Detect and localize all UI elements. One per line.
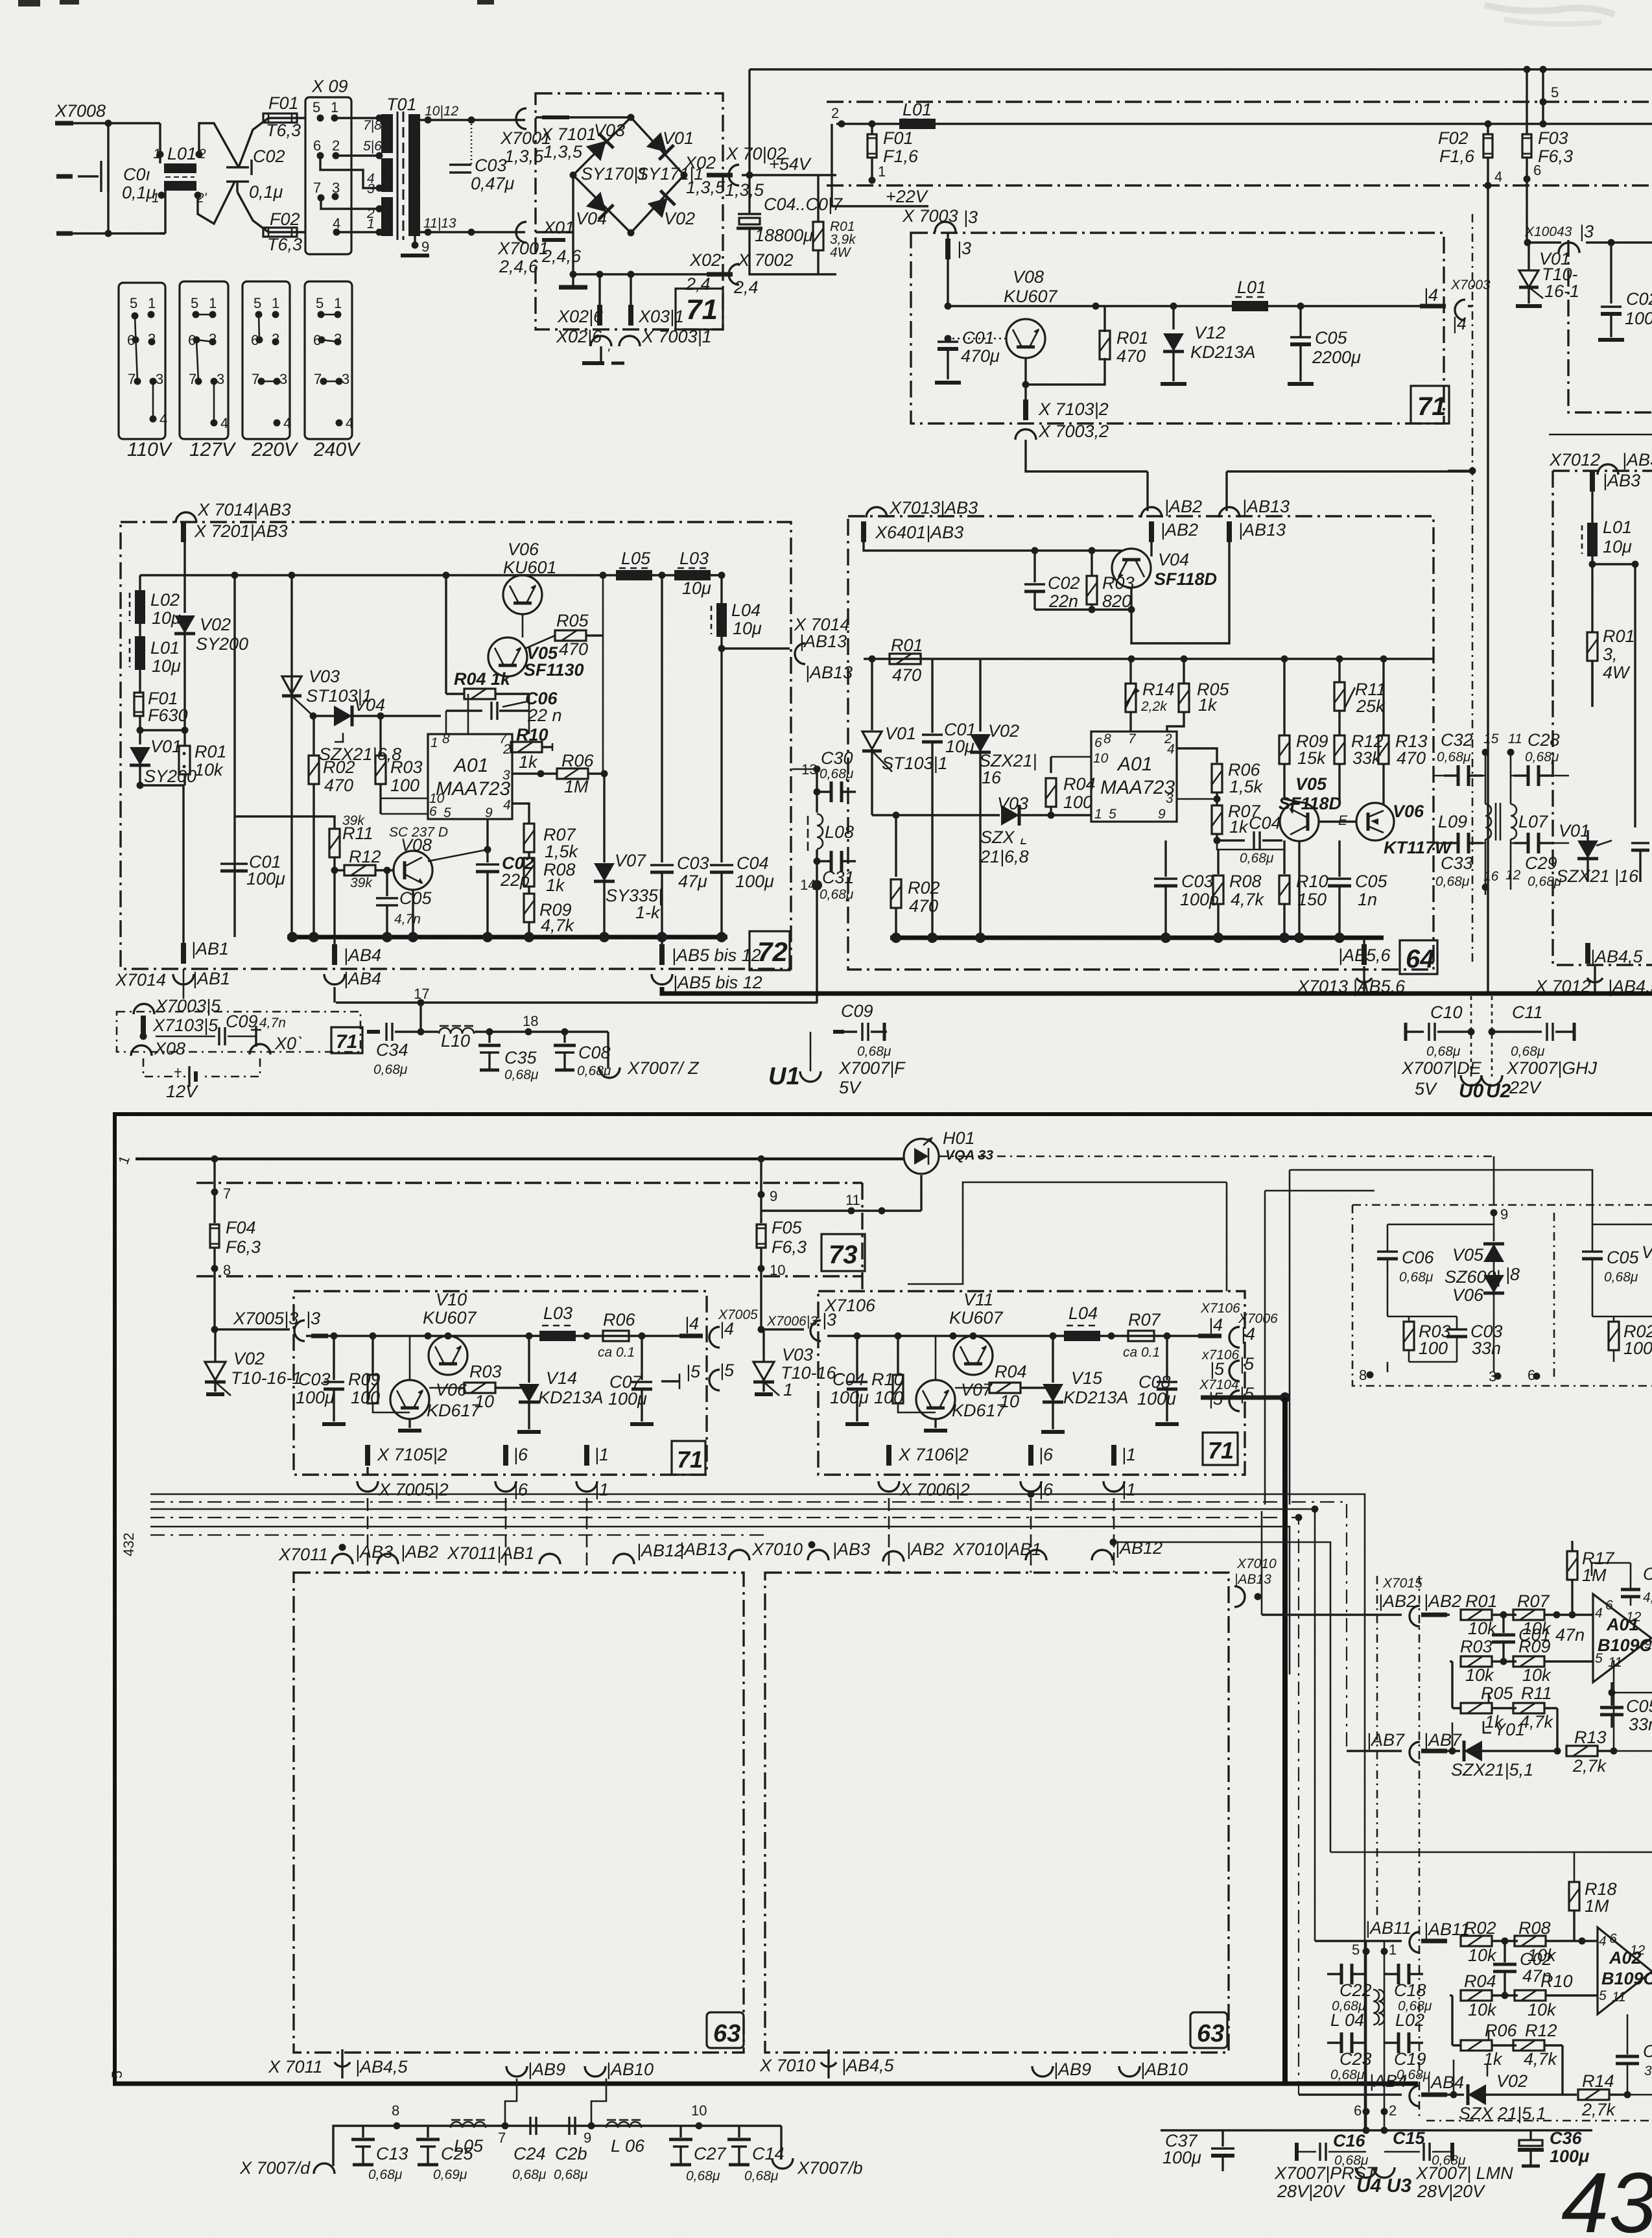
label X7007/LMN <box>1415 2163 1513 2201</box>
wire base row <box>1217 840 1284 850</box>
capacitor C08 0,68u <box>554 1029 611 1079</box>
resistor R09 4,7k <box>524 887 575 937</box>
label U1 <box>768 1032 821 1090</box>
bottom connector row 63R <box>1032 2060 1091 2079</box>
resistor R05 1k <box>1167 659 1230 732</box>
capacitor C14 0,68u <box>727 2126 785 2184</box>
wire mains bottom <box>65 232 165 234</box>
node 13 <box>792 761 821 778</box>
capacitor C04..C07 18800u <box>737 175 843 274</box>
fuse F02 T6,3 <box>263 209 302 254</box>
resistor R11 39k <box>329 813 373 937</box>
wire X7003/4 to right <box>1448 306 1472 471</box>
pin /1 (L) <box>576 1445 609 1499</box>
wire AB11 row <box>1315 1940 1402 1942</box>
capacitor C37 100u <box>1162 2130 1234 2171</box>
resistor R12 33k <box>1334 732 1384 804</box>
thick bottom border <box>113 2082 1418 2086</box>
transistor V05 SF118D (64) <box>1279 774 1341 841</box>
pin X03/1 <box>628 274 684 326</box>
wire V03 feed <box>761 1328 804 1330</box>
node top-left junction <box>105 120 112 127</box>
capacitor C02 22p <box>476 850 534 937</box>
choke L01 10u <box>130 624 181 676</box>
capacitor C28 0,68u <box>1514 730 1560 786</box>
transistor V08 SC237D <box>389 825 488 937</box>
selector plug 127V <box>180 281 237 460</box>
capacitor C03 100p <box>1154 840 1219 938</box>
resistor R04 10 <box>955 1362 1057 1411</box>
wire rail bottom 64 <box>890 936 1384 940</box>
dash-dot box far right top <box>1552 471 1553 700</box>
capacitor C13 0,68u <box>351 2126 408 2182</box>
coil L10 <box>421 1026 608 1051</box>
bridge rectifier diamond wires <box>573 117 684 233</box>
capacitor C01 0,1u <box>78 161 156 202</box>
thyristor V03 ST103/1 <box>282 667 372 716</box>
wire AB4 row <box>1299 2093 1402 2095</box>
capacitor C26 0,68u <box>554 2117 588 2182</box>
wire V05 collector down <box>1298 841 1300 938</box>
node 8 <box>392 2102 401 2130</box>
pin X02/6 <box>557 274 604 326</box>
wire bridge minus rail <box>573 175 721 274</box>
connector X7007/Z <box>599 1032 700 1078</box>
connector row above 63R <box>883 1540 944 1562</box>
wire rail bottom thick 72 <box>287 935 727 940</box>
connector X7003/1 <box>619 327 712 346</box>
scan marks top edge <box>18 0 40 6</box>
diode V07 SY335 1-k <box>594 774 663 937</box>
capacitor C15 0,68u <box>1384 2128 1466 2168</box>
connector X7002 1,3,5 <box>725 144 786 200</box>
connector X7007/b <box>772 2126 863 2178</box>
dash-dot box far right continuation <box>1553 700 1652 965</box>
coil L05 chain <box>451 2120 486 2156</box>
coil L08 <box>808 792 854 851</box>
resistor R12 4,7k <box>1513 2021 1563 2095</box>
pin /6 (L) <box>495 1445 528 1499</box>
wire top feed 64 <box>864 542 1122 551</box>
choke L05 <box>616 549 652 580</box>
connector X7007/d <box>239 2158 335 2178</box>
capacitor C22 0,68u <box>1327 1964 1366 1984</box>
label SZX21/6,8 <box>319 733 401 764</box>
node dot top bus <box>1540 66 1547 73</box>
ground bridge <box>559 285 587 290</box>
node 9 SZ box <box>1491 1206 1509 1222</box>
trimmer R14 2,2k <box>1126 659 1175 732</box>
pin /1 (R) <box>1103 1445 1136 1499</box>
connector /4 right (lower71L) <box>679 1307 758 1348</box>
choke L01 in bus2 <box>899 100 936 129</box>
connector X08 <box>131 1039 185 1058</box>
selector plug 240V <box>305 281 361 460</box>
wire V05 to V06 <box>1319 820 1356 822</box>
wire node5 vertical <box>1542 69 1544 124</box>
pin /6 (R) <box>1021 1445 1054 1499</box>
T01 pin 9 and ground <box>401 236 429 256</box>
label X7007/PRST <box>1274 2163 1378 2201</box>
wire stub right lower <box>1148 471 1472 511</box>
node 10 <box>691 2102 707 2130</box>
capacitor C02 100u right <box>1598 243 1652 340</box>
transformer T01 <box>363 95 420 240</box>
resistor R06 1M <box>512 751 608 796</box>
wire left vertical C01 <box>233 575 235 937</box>
wire bridge bottom feed <box>536 231 573 233</box>
node 9 <box>758 1159 778 1223</box>
wire pin8 up <box>445 575 447 694</box>
transistor V06 KD617 <box>390 1336 481 1431</box>
wire R11 feed <box>235 816 335 829</box>
resistor R01 3, 4W right <box>1587 626 1635 707</box>
resistor R18 1M <box>1330 1852 1652 1941</box>
resistor R14 2,7k <box>1578 2071 1652 2119</box>
node junction F01/V01 <box>137 727 144 734</box>
label block 71 <box>672 1441 705 1475</box>
wires X09 to T01 <box>335 117 379 119</box>
wire +54V <box>742 154 836 179</box>
wire right column lower <box>1592 661 1635 827</box>
wire bus dash-dot upper <box>827 101 1652 102</box>
resistor R07 ca 0.1 <box>1123 1310 1161 1360</box>
resistor R10 10k <box>1515 1971 1598 2019</box>
resistor R08 4,7k (64) <box>1213 850 1265 938</box>
thyristor V02 T10-16-1 <box>205 1329 302 1396</box>
pin /AB4,5 far right <box>1585 943 1590 964</box>
label X02 2,4 <box>685 250 733 294</box>
pin X7106/2 <box>879 1445 970 1499</box>
wire SZ bottoms <box>1387 1316 1494 1372</box>
wire rail lower-right 71 <box>827 1333 1198 1340</box>
dash-dot box 71 right lower <box>818 1291 1245 1475</box>
wire cross bottom: L01 pin2' to C02 top <box>198 182 235 224</box>
capacitor C30 0,68u <box>814 748 856 802</box>
pin /3 inside <box>945 233 971 259</box>
X09 pins 6 2 <box>313 137 340 160</box>
capacitor C34 0,68u <box>367 1003 425 1077</box>
capacitor C19 0,68u <box>1384 2032 1423 2053</box>
label /4 and connector X7003 <box>1420 278 1491 333</box>
resistor R10 150 <box>1279 840 1328 938</box>
X09 pin 4 <box>333 215 340 236</box>
label block 72 <box>749 931 790 970</box>
capacitor C02 47n (op) <box>1493 1941 1552 1995</box>
wire link 1823 <box>908 1182 1227 1291</box>
dash-dot box 71 left lower <box>294 1291 707 1475</box>
wire bus 1 dash-dot <box>827 163 1652 185</box>
connector X7010/AB13 <box>1234 1556 1277 1607</box>
wire cross top: L01 pin2 to C02 bottom <box>199 123 239 167</box>
transistor V06 KT117W <box>1338 802 1453 857</box>
connector X7001 1,3,5 <box>500 108 551 166</box>
wire AB2 row <box>1262 1613 1402 1615</box>
label X7101 1,3,5 <box>540 117 596 161</box>
dash-dot box 71 bridge <box>536 93 723 329</box>
choke L04 lower <box>1064 1304 1100 1341</box>
wire thick U1 rail <box>662 987 1652 994</box>
capacitor C36 100u <box>1518 2128 1589 2166</box>
bottom connector row 63L <box>268 2049 408 2078</box>
label block 63 right <box>1190 2012 1227 2048</box>
capacitor C07 100u <box>608 1336 654 1424</box>
wire bottom left pair <box>140 785 185 944</box>
op-amp A02 B109C <box>1598 1927 1652 2014</box>
connector X7002 2,4 <box>729 250 794 297</box>
ground mains below <box>582 346 624 363</box>
X09 pins 7 3 <box>313 180 340 202</box>
connector X7013/AB5,6 Y <box>1297 966 1406 996</box>
capacitor C09 4,7n <box>156 1012 286 1047</box>
resistor R03 820 <box>1087 551 1135 611</box>
thyristor V01 ST103/1 <box>862 659 948 815</box>
wire L01 pin1 <box>159 123 161 163</box>
capacitor C29 0,68u <box>1505 833 1562 889</box>
wire C02 to F01 <box>239 118 305 167</box>
wire /5 thick to bus <box>1201 1396 1285 1400</box>
outer box bottom right partial <box>1549 434 1652 436</box>
resistor R06 1k (op) <box>1461 2021 1518 2069</box>
fuse F01 T6,3 <box>263 93 301 140</box>
wire pin9 down <box>486 819 488 850</box>
wires hcap links <box>1434 776 1569 843</box>
choke L01 output <box>1232 278 1268 311</box>
wire +22V <box>832 187 929 206</box>
resistor R06 1,5k <box>1177 748 1264 796</box>
pin X7105/2 <box>365 1445 447 1475</box>
wire chain <box>333 2126 781 2166</box>
scan artifacts top right <box>1485 5 1614 24</box>
capacitor C16 0,68u <box>1297 2131 1369 2168</box>
connector X7003 /3 <box>902 206 978 232</box>
diode V03 SY170/1 upper-left <box>581 121 648 184</box>
diode V02 lower-right <box>648 191 695 228</box>
wire 1 <box>115 1154 904 1167</box>
resistor R05 1k <box>1461 1684 1516 1732</box>
connector X02/6 below <box>556 327 611 363</box>
pin X7201/AB3 <box>181 521 288 542</box>
connector /AB4 <box>1369 2071 1464 2106</box>
wire mains left stub bottom <box>56 232 73 236</box>
label block 71 <box>676 289 723 329</box>
wire rail top 72 <box>140 574 722 576</box>
wire AB4 to R06 <box>1453 2060 1455 2095</box>
wire V02 to junction <box>183 634 185 730</box>
wires pins down to 63L <box>368 1498 1114 1573</box>
thyristor V03 T10-16-1 <box>753 1329 842 1399</box>
capacitor C03 33n (SZ) <box>1446 1316 1503 1362</box>
connector X7008 <box>54 101 106 123</box>
diode V01 SZX21|16 (right) <box>1556 821 1639 886</box>
connector X7015/AB2 <box>1378 1576 1461 1626</box>
choke L03 lower <box>539 1304 576 1341</box>
label block 63 left <box>707 2012 744 2048</box>
diode V04 lower-left <box>576 192 613 228</box>
transistor V07 KD617 <box>916 1336 1006 1431</box>
resistor R13 470 <box>1378 659 1428 804</box>
mesh staircase wires <box>150 1491 1365 2131</box>
label block 71 <box>1411 386 1449 423</box>
resistor R02 470 (64) <box>891 812 940 938</box>
wire L01 down + branch <box>1592 556 1635 700</box>
transistor V08 KU607 <box>948 267 1058 358</box>
choke L02 10u <box>130 575 181 628</box>
wire pin8/7 verticals <box>446 694 529 734</box>
capacitor C08 100u (lower71R) <box>1137 1336 1179 1424</box>
resistor R03 10 <box>429 1362 533 1411</box>
dash-dot fuse row bottom <box>196 1275 862 1277</box>
resistor R08 10k <box>1515 1918 1598 1965</box>
connector /5 (lower71L) <box>661 1361 735 1390</box>
connector X7014/AB3 top <box>176 500 291 523</box>
transistor V10 KU607 <box>423 1290 477 1375</box>
capacitor C25 0,68u <box>416 2126 474 2182</box>
vertical link at bus left <box>831 124 832 201</box>
connector /AB7 <box>1367 1730 1462 1763</box>
pin X6401/AB3 <box>861 521 963 542</box>
capacitor C05 2200u <box>1288 306 1361 384</box>
capacitor C01 47n <box>1492 1615 1585 1661</box>
node junction L01 left <box>869 121 876 128</box>
connector U4 U3 <box>1356 2167 1411 2196</box>
resistor R12 39k <box>331 847 394 890</box>
connector X7005/2 <box>357 1480 449 1499</box>
diode V01 SZX21/5,1 <box>1447 1720 1561 1780</box>
fuse F05 F6,3 <box>757 1218 807 1257</box>
connector X10043 /3 <box>1524 222 1602 253</box>
diode V01 SY171/1 upper-right <box>637 128 703 184</box>
resistor R01 470 <box>1100 306 1149 366</box>
transistor V11 KU607 <box>949 1290 1004 1375</box>
capacitor C23 0,68u <box>1327 2032 1366 2053</box>
connector X7005/3 <box>233 1309 320 1341</box>
capacitor C06 33n right <box>1616 2014 1652 2095</box>
LED H01 VQA 33 <box>904 1128 993 1174</box>
zeners V05/V06 SZ600/8 <box>1445 1244 1520 1336</box>
resistor R07 10k <box>1513 1591 1593 1638</box>
capacitor C06 22n <box>446 689 562 725</box>
capacitor C05 1n <box>1328 840 1388 938</box>
capacitor C04 100u (lower71R) <box>830 1336 869 1424</box>
fuse F01 F1,6 <box>867 124 919 180</box>
connector X7013/AB3 <box>866 498 978 518</box>
capacitor C32 0,68u <box>1437 730 1483 786</box>
dash-dot box right partial <box>1568 240 1652 412</box>
wire AB7 to R05 <box>1452 1722 1454 1751</box>
resistor R10 1k <box>511 725 552 772</box>
resistor R02 100 (SZ) <box>1592 1316 1652 1362</box>
wire AB13 down <box>1131 542 1229 643</box>
pin X7103/2 <box>1023 385 1109 420</box>
wires AB9/AB10 down <box>505 2078 606 2126</box>
resistor R03 100 (SZ) <box>1404 1316 1451 1362</box>
wire +54V up to top bus <box>748 69 750 175</box>
wire verticals <box>1366 1941 1384 2130</box>
capacitor C03 0,47u <box>449 120 515 193</box>
capacitor C11 0,68u <box>1492 1003 1598 1097</box>
capacitor C24 0,68u <box>512 2117 547 2182</box>
resistor R03 10k <box>1450 1637 1516 1685</box>
dash-dot bottom right <box>1426 2120 1652 2122</box>
resistor R01 470 <box>890 636 923 685</box>
label block 73 <box>821 1234 865 1271</box>
node 8 <box>211 1248 231 1329</box>
connector row above 63L <box>278 1542 393 1564</box>
label block 71 small <box>331 1027 362 1053</box>
label block 64 <box>1400 940 1437 974</box>
selector plug 110V <box>119 283 173 460</box>
label X01 2,4,6 <box>541 218 582 266</box>
resistor R10 100 <box>871 1336 936 1412</box>
wire 11 <box>761 1175 921 1215</box>
dash-dot box X7103/5 <box>117 1012 360 1052</box>
diode V03 SZX 21/6,8 <box>872 794 1091 866</box>
capacitor C27 0,68u <box>669 2126 727 2184</box>
resistor R04 100 <box>1046 757 1096 819</box>
resistor R09 10k <box>1513 1637 1593 1685</box>
dash-dot box 71 (V08) <box>911 233 1444 423</box>
thick bus vertical <box>1282 1398 1288 2084</box>
capacitor C03 47u <box>650 575 709 937</box>
transistor V05 SF1130 <box>488 637 584 680</box>
capacitor C04 4,7n top <box>1592 1563 1652 1606</box>
connector /AB4 below <box>324 969 381 988</box>
resistor R07 1k <box>1177 792 1261 840</box>
fuse F01 F630 <box>134 670 188 730</box>
resistor R13 2,7k <box>1566 1660 1652 1776</box>
wire C02 to F02 <box>237 192 305 232</box>
capacitor C02 0,1u <box>226 147 285 202</box>
connector X7001 2,4,6 <box>497 222 549 276</box>
wire bus 2 (+22V feed) <box>831 105 1652 128</box>
diode V02 SY200 <box>174 541 248 654</box>
connector X09 box <box>305 77 351 254</box>
wire regulator rail <box>948 259 1439 306</box>
op-amp A01 B109C <box>1593 1594 1652 1682</box>
connector X7003,2 <box>1015 422 1109 441</box>
resistor R01 10k (op) <box>1447 1591 1516 1638</box>
fuse F02 F1,6 <box>1438 121 1502 189</box>
resistor R08 1k <box>524 852 576 895</box>
resistor R03 100 <box>375 716 423 814</box>
resistor R04 1k <box>446 669 529 699</box>
resistor R09 15k <box>1279 659 1328 802</box>
wire R04 tap <box>1452 1995 1461 2045</box>
transformer L09/L07 <box>1438 752 1548 895</box>
capacitor C03 100u (lower71L) <box>296 1336 346 1424</box>
nodes U0 U2 <box>1459 996 1511 1102</box>
node 9 <box>584 2123 595 2147</box>
pin /AB2 <box>1141 497 1202 556</box>
wire AB7 row <box>1347 1750 1402 1752</box>
choke L03 10u <box>674 549 711 598</box>
capacitor right partial <box>1631 843 1649 882</box>
capacitor C10 0,68u <box>1401 1003 1482 1099</box>
dash-dot box 63 right <box>765 1573 1229 2053</box>
filter choke L01 two windings <box>152 144 207 206</box>
wire right column <box>1601 241 1652 243</box>
capacitor C01 100u <box>220 852 285 888</box>
connectors right (lower71R) <box>1198 1301 1278 1348</box>
dash-dot box 72 <box>121 522 791 969</box>
wire bridge top feed <box>536 116 631 118</box>
coil L02 <box>1378 1990 1384 2025</box>
node 7 <box>211 1159 231 1223</box>
IC A01 MAA723 <box>428 732 512 820</box>
capacitor C04 0,68u series <box>1214 813 1283 866</box>
resistor R02 470 <box>309 716 355 937</box>
